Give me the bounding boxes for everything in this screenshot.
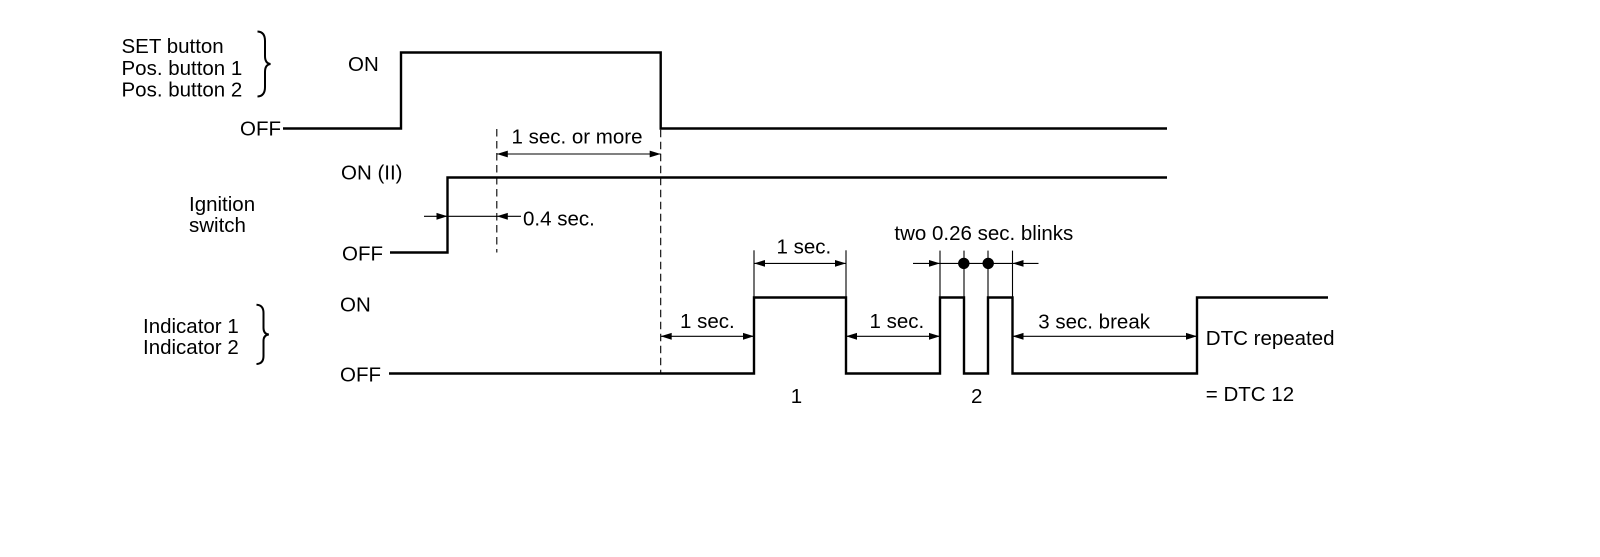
svg-text:OFF: OFF [240,118,281,141]
extension line at x=846 [845,250,847,297]
brace for button group [258,32,271,97]
svg-text:3 sec. break: 3 sec. break [1038,310,1150,333]
dimension arrow: 1 sec. (pulse 1 to blinks) [846,333,940,340]
dimension arrow: 3 sec. break [1013,333,1198,340]
dimension arrow: 1 sec. or more (between dashed lines) [497,151,661,158]
svg-text:DTC repeated: DTC repeated [1206,327,1335,350]
extension line at x=988 [987,251,989,298]
extension line at x=964 [963,251,965,298]
svg-text:OFF: OFF [342,242,383,265]
svg-text:2: 2 [971,385,982,408]
svg-text:1 sec.: 1 sec. [870,310,925,333]
svg-text:SET button: SET button [122,35,224,58]
dimension arrows for blinks (inward pointing) [913,260,1039,267]
svg-text:ON: ON [340,293,371,316]
waveform: SET button (OFF-ON-OFF pulse) [283,53,1167,129]
waveform: Indicator 1/2 blink pattern [389,298,1328,374]
svg-text:ON: ON [348,53,379,76]
dashed line at x=660.7 [660,130,662,374]
svg-text:Indicator 2: Indicator 2 [143,336,239,359]
svg-text:= DTC 12: = DTC 12 [1206,383,1294,406]
svg-text:0.4 sec.: 0.4 sec. [523,208,595,231]
svg-text:Pos. button 2: Pos. button 2 [122,79,243,102]
svg-text:1 sec.: 1 sec. [680,310,735,333]
blink dot 1 [958,258,969,269]
dashed line at x=496.8 [496,129,498,253]
label: Ignition switch [189,193,255,237]
svg-text:switch: switch [189,214,246,237]
brace for indicator group [257,305,269,364]
svg-text:two 0.26 sec. blinks: two 0.26 sec. blinks [894,222,1073,245]
extension line at x=754 [753,250,755,297]
dimension arrow: 0.4 sec. (outside arrows pointing inward) [424,213,521,220]
dimension arrow: 1 sec. (dashed line to pulse 1) [661,333,754,340]
label: SET button / Pos. button 1 / Pos. button 2 [122,35,243,102]
svg-text:Pos. button 1: Pos. button 1 [122,57,243,80]
svg-text:1: 1 [791,385,802,408]
waveform: Ignition switch [390,178,1167,253]
svg-text:Indicator 1: Indicator 1 [143,315,239,338]
extension line at x=1012.5 [1012,251,1014,298]
dimension arrow: 1 sec. (above pulse 1) [754,260,846,267]
svg-text:OFF: OFF [340,364,381,387]
blink dot 2 [983,258,994,269]
svg-text:ON (II): ON (II) [341,162,403,185]
svg-text:1 sec. or more: 1 sec. or more [512,126,643,149]
svg-text:Ignition: Ignition [189,193,255,216]
svg-text:1 sec.: 1 sec. [777,236,832,259]
label: Indicator 1 / Indicator 2 [143,315,239,359]
extension line at x=940 [939,251,941,298]
